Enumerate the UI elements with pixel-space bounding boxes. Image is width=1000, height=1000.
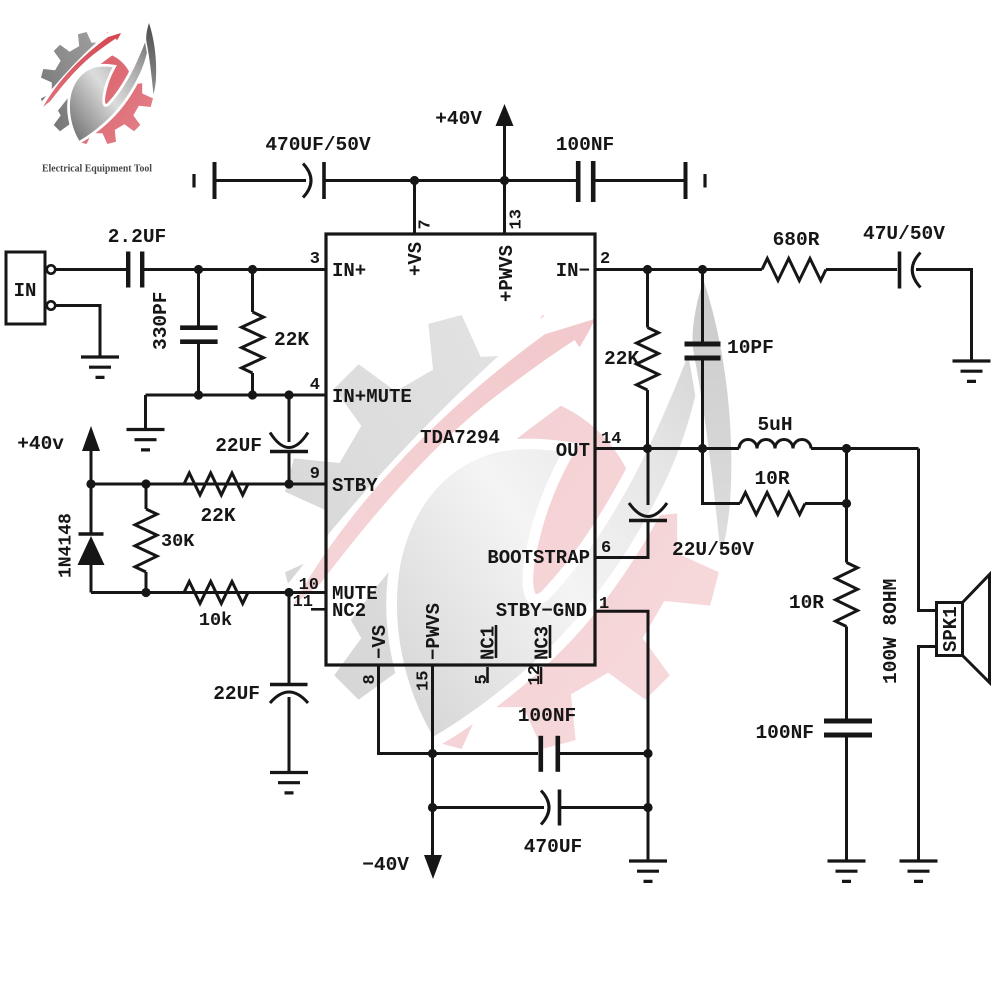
- node pin13 rail junction: [500, 176, 509, 185]
- svg-text:11: 11: [293, 593, 313, 612]
- svg-text:22U/50V: 22U/50V: [672, 539, 754, 561]
- svg-text:NC2: NC2: [332, 600, 366, 622]
- +40v supply arrow (left): [17, 426, 100, 484]
- svg-text:STBY: STBY: [332, 475, 378, 497]
- pin 7 stub: [413, 181, 416, 235]
- svg-text:22UF: 22UF: [213, 683, 260, 705]
- capacitor 2.2UF: [108, 226, 167, 288]
- node 30K bottom: [141, 588, 150, 597]
- wire C1 to pin 3: [144, 268, 326, 271]
- -40V supply arrow: [362, 854, 442, 879]
- wire to speaker top: [919, 449, 937, 611]
- svg-text:−40V: −40V: [362, 854, 409, 876]
- svg-text:IN: IN: [14, 280, 37, 302]
- ground (pin4): [127, 430, 165, 450]
- ground (top-right, sideways): [686, 162, 706, 199]
- resistor 10R (zobel): [789, 449, 858, 719]
- node zobel top: [842, 444, 851, 453]
- resistor 22K (input load): [242, 270, 310, 396]
- ground (zobel): [828, 861, 866, 881]
- ground (22UF mute): [270, 773, 308, 793]
- node 22UF2 top: [284, 588, 293, 597]
- wire -vs rail to 100NF: [433, 752, 539, 755]
- node pin7 rail junction: [410, 176, 419, 185]
- svg-text:470UF/50V: 470UF/50V: [265, 134, 371, 156]
- svg-text:4: 4: [310, 376, 320, 395]
- diode 1N4148: [57, 484, 105, 593]
- svg-text:100NF: 100NF: [556, 134, 615, 156]
- node fb 10PF: [698, 265, 707, 274]
- svg-text:TDA7294: TDA7294: [420, 427, 500, 449]
- resistor 10R (parallel): [703, 449, 847, 515]
- node 22UF bottom: [284, 479, 293, 488]
- capacitor 470UF/50V (top): [265, 134, 371, 199]
- ground (input): [81, 357, 119, 377]
- wire pin1 stby-gnd down rail: [596, 611, 649, 861]
- wire STBY line: [91, 483, 326, 486]
- capacitor 10PF: [685, 270, 774, 449]
- wire IN bottom to ground: [55, 306, 100, 358]
- capacitor 22UF (mute cap): [213, 593, 308, 773]
- svg-text:7: 7: [417, 219, 436, 229]
- ground (stby-gnd rail): [629, 861, 667, 881]
- capacitor 470UF (bottom): [524, 790, 583, 859]
- svg-text:OUT: OUT: [556, 440, 590, 462]
- node pin4/330PF: [194, 390, 203, 399]
- svg-text:100NF: 100NF: [518, 705, 577, 727]
- svg-text:+PWVS: +PWVS: [496, 245, 518, 302]
- wire OUT line: [596, 447, 740, 450]
- resistor 22K (stby): [184, 473, 248, 527]
- svg-text:6: 6: [601, 539, 611, 558]
- svg-text:STBY−GND: STBY−GND: [496, 600, 587, 622]
- wire zobel to ground: [845, 738, 848, 862]
- node pin4/22K: [248, 390, 257, 399]
- svg-text:22K: 22K: [200, 505, 235, 527]
- svg-text:15: 15: [415, 671, 434, 691]
- resistor 30K: [135, 484, 195, 593]
- node zobel mid: [842, 499, 851, 508]
- ground (speaker): [900, 861, 938, 881]
- svg-text:2: 2: [600, 250, 610, 269]
- svg-text:100NF: 100NF: [755, 722, 814, 744]
- svg-text:30K: 30K: [161, 531, 195, 552]
- capacitor 330PF: [150, 270, 218, 396]
- svg-text:330PF: 330PF: [150, 291, 172, 350]
- resistor 22K (feedback): [604, 270, 659, 449]
- wire pin 2 line: [596, 268, 763, 271]
- wire top rail middle: [324, 179, 576, 182]
- svg-text:2.2UF: 2.2UF: [108, 226, 167, 248]
- node stby rail: [86, 479, 95, 488]
- svg-text:22K: 22K: [604, 348, 639, 370]
- op-amp IC U1 TDA7294 body: [326, 234, 595, 665]
- svg-text:9: 9: [310, 465, 320, 484]
- svg-text:10PF: 10PF: [727, 337, 774, 359]
- resistor 10k: [184, 582, 248, 632]
- svg-text:−PWVS: −PWVS: [423, 603, 445, 660]
- wire pin 15 down: [431, 665, 434, 856]
- wire 470UF line left: [433, 806, 545, 809]
- speaker SPK1: [937, 575, 990, 683]
- svg-text:10k: 10k: [199, 610, 232, 631]
- wire to ground pin4: [144, 395, 147, 430]
- svg-text:14: 14: [601, 430, 621, 449]
- wire 5uH to spk branch: [811, 447, 919, 450]
- capacitor 100NF (zobel): [755, 719, 872, 745]
- svg-text:SPK1: SPK1: [940, 606, 962, 652]
- svg-text:22K: 22K: [274, 329, 309, 351]
- svg-text:47U/50V: 47U/50V: [863, 223, 945, 245]
- connector IN box: [6, 252, 55, 324]
- wire 470UF right: [560, 806, 649, 809]
- svg-text:5: 5: [473, 674, 492, 684]
- wire 100NF to gnd rail: [560, 752, 648, 755]
- capacitor 22UF (mute/stby filter): [215, 395, 308, 484]
- pin 13 stub: [503, 181, 506, 235]
- watermark logo: [258, 244, 803, 749]
- svg-text:22UF: 22UF: [215, 435, 262, 457]
- wire speaker bottom to ground: [919, 647, 937, 862]
- svg-text:680R: 680R: [773, 229, 820, 251]
- wire pin 8 down/right: [379, 665, 433, 754]
- resistor 680R: [762, 229, 826, 281]
- wire IN top to C1: [55, 268, 126, 271]
- node in+ / 22K junction: [248, 265, 257, 274]
- svg-text:1N4148: 1N4148: [57, 513, 77, 578]
- capacitor 47U/50V: [863, 223, 945, 289]
- svg-text:+40v: +40v: [17, 433, 64, 455]
- svg-text:IN−: IN−: [556, 260, 590, 282]
- capacitor 100NF (top): [556, 134, 615, 202]
- svg-text:IN+: IN+: [332, 260, 366, 282]
- wire top rail right: [596, 179, 686, 182]
- inductor 5uH: [739, 414, 811, 449]
- node out/10PF: [698, 444, 707, 453]
- node fb 22K: [643, 265, 652, 274]
- svg-text:10R: 10R: [789, 592, 824, 614]
- svg-text:10R: 10R: [754, 468, 789, 490]
- svg-text:Electrical Equipment Tool: Electrical Equipment Tool: [42, 164, 152, 175]
- svg-text:IN+MUTE: IN+MUTE: [332, 386, 412, 408]
- svg-text:+VS: +VS: [405, 242, 427, 276]
- company logo: [34, 14, 175, 144]
- ground (47U): [953, 361, 991, 381]
- svg-text:−VS: −VS: [369, 625, 391, 659]
- svg-text:13: 13: [508, 209, 527, 229]
- node out/22K: [643, 444, 652, 453]
- node 470uf junction: [428, 803, 437, 812]
- wire pin 4 line: [146, 394, 327, 397]
- node gnd rail/100NF: [643, 749, 652, 758]
- node pin4/22UF: [284, 390, 293, 399]
- capacitor 100NF (bottom mid): [518, 705, 577, 772]
- svg-text:+40V: +40V: [435, 108, 482, 130]
- wire MUTE line: [91, 591, 326, 594]
- ground (top-left, sideways): [194, 162, 215, 199]
- svg-text:3: 3: [310, 250, 320, 269]
- wire 680R to cap: [826, 268, 897, 271]
- node -vs junction: [428, 749, 437, 758]
- wire cap to ground right: [916, 270, 972, 362]
- wire pin 6 bootstrap: [596, 522, 649, 558]
- +40V supply arrow (top): [435, 104, 513, 181]
- node gnd rail/470UF: [643, 803, 652, 812]
- wire top rail left: [215, 179, 307, 182]
- svg-text:BOOTSTRAP: BOOTSTRAP: [487, 547, 590, 569]
- svg-text:100W 8OHM: 100W 8OHM: [880, 579, 902, 684]
- svg-text:5uH: 5uH: [757, 414, 792, 436]
- node in+ / 330PF junction: [194, 265, 203, 274]
- svg-text:470UF: 470UF: [524, 836, 583, 858]
- node 30K top: [141, 479, 150, 488]
- capacitor 22U/50V bootstrap: [629, 449, 754, 562]
